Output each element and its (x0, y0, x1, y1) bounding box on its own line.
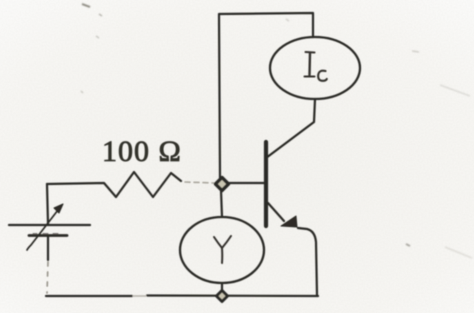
node A junction diamond (216, 178, 229, 191)
wire left vertical upper (47, 184, 48, 224)
wire voltmeter to bottom node (221, 283, 223, 292)
wire bottom rail (46, 294, 318, 297)
wire collector (266, 99, 315, 158)
wire node to voltmeter (221, 190, 222, 217)
wire bottom faint gap (133, 295, 146, 297)
svg-text:100 Ω: 100 Ω (102, 135, 182, 168)
transistor Q1 emitter (268, 203, 284, 221)
wire left vertical lower (47, 236, 49, 260)
source V1 short plate roughness (33, 233, 58, 235)
wire base (229, 182, 264, 184)
transistor Q1 emitter arrowhead (281, 216, 297, 227)
scan speck top (81, 4, 472, 258)
voltmeter U2 Y (180, 217, 264, 283)
wire top rail (219, 13, 313, 178)
source V1 variable arrow (27, 210, 58, 250)
resistor R1 (47, 172, 181, 197)
ammeter U1 Ic (270, 37, 360, 99)
label Ic (305, 52, 327, 81)
wire emitter to bottom (298, 228, 317, 295)
node B junction diamond (217, 291, 228, 302)
label 100 ohm (102, 135, 182, 168)
wire left vertical lower faint (47, 262, 48, 293)
source V1 short plate (29, 234, 67, 237)
source V1 arrowhead (54, 204, 63, 213)
wire base faint segment (185, 182, 215, 183)
transistor Q1 base bar (264, 142, 268, 226)
label Y (214, 236, 231, 263)
source V1 long plate (9, 224, 90, 226)
